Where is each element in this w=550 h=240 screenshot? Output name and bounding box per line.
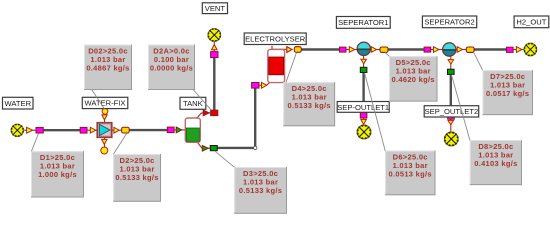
svg-text:H2_OUT: H2_OUT [516, 18, 546, 27]
mixer WATER-FIX [97, 123, 112, 138]
leader D02 [92, 90, 104, 109]
stub SEPERATOR1 bottom [363, 55, 365, 68]
stub SEP-OUTLET1 sink [363, 118, 365, 126]
annotation D2A [148, 45, 195, 91]
annotation D1 [31, 151, 84, 197]
connector SEPERATOR1 in magenta [340, 47, 347, 52]
sink SEP-OUTLET1 flag [357, 125, 372, 140]
stub WATER-FIX bottom [104, 137, 106, 147]
leader D3 [215, 151, 235, 167]
separator SEPERATOR1 [357, 42, 370, 55]
leader D5 [385, 52, 389, 56]
arrow SEP_OUTLET2 (down) [448, 120, 454, 124]
arrow SEPERATOR2 in [434, 47, 439, 53]
connector SEPERATOR2 out yellow [466, 47, 474, 52]
svg-text:0.5133 kg/s: 0.5133 kg/s [115, 173, 158, 182]
connector ELECTROLYSER in magenta [252, 83, 259, 89]
connector WATER-FIX out yellow [122, 127, 130, 133]
svg-text:SEPERATOR2: SEPERATOR2 [424, 18, 474, 27]
stub WATER [23, 129, 36, 131]
stub TANK vapour outlet [196, 113, 211, 119]
annotation D3 [234, 167, 287, 214]
arrow WATER-FIX bottom (down) [102, 139, 107, 144]
arrow WATER out [27, 127, 33, 133]
mixer top port circle [102, 108, 108, 114]
svg-text:TANK: TANK [183, 99, 203, 108]
mixer bottom port circle [101, 147, 108, 154]
arrow ELECTROLYSER out [287, 47, 292, 53]
arrow VENT (up) [212, 45, 218, 50]
stub SEPERATOR2 right [456, 49, 467, 51]
wire elbow ring [254, 146, 257, 149]
sink VENT flag [208, 28, 222, 42]
svg-text:SEPERATOR1: SEPERATOR1 [338, 18, 388, 27]
leader D1 [32, 134, 39, 152]
svg-text:WATER-FIX: WATER-FIX [85, 99, 126, 108]
connector TANK in magenta [167, 127, 174, 133]
stub TANK liquid outlet [197, 142, 211, 148]
label WATER [3, 97, 34, 109]
sink SEP_OUTLET2 flag [444, 132, 459, 147]
svg-text:0.0000 kg/s: 0.0000 kg/s [150, 63, 193, 72]
label SEP-OUTLET1 [337, 102, 389, 113]
arrow ELECTROLYSER in [262, 82, 267, 88]
wire SEPERATOR2 to SEP_OUTLET2 [450, 75, 452, 115]
svg-text:0.4620 kg/s: 0.4620 kg/s [392, 75, 435, 84]
stub SEP_OUTLET2 sink [450, 119, 452, 133]
connector WATER out magenta [36, 127, 43, 133]
svg-text:0.5133 kg/s: 0.5133 kg/s [288, 101, 331, 110]
sink H2_OUT flag [524, 43, 537, 56]
arrow SEPERATOR1 down [361, 59, 367, 64]
connector SEPERATOR2 green square [448, 69, 455, 74]
wire SEPERATOR1 to SEP-OUTLET1 [362, 73, 364, 113]
leader D8 [452, 75, 470, 140]
stub ELECTROLYSER outlet [271, 46, 273, 51]
stub ELECTROLYSER outlet h [272, 48, 288, 50]
connector SEPERATOR1 green square [360, 67, 367, 72]
arrow SEPERATOR2 out [457, 47, 462, 53]
svg-text:0.5133 kg/s: 0.5133 kg/s [239, 186, 282, 195]
annotation D2 [113, 154, 161, 202]
label H2_OUT [514, 16, 549, 28]
wire TANK to VENT [213, 58, 215, 110]
annotation D7 [483, 70, 534, 115]
connector TANK liquid green square [210, 146, 217, 151]
stub SEPERATOR1 right [370, 49, 380, 51]
wire SEPERATOR2 to H2_OUT [475, 48, 507, 50]
arrow SEP-OUTLET1 (down) [361, 119, 367, 124]
wire TANK to ELECTROLYSER [217, 88, 255, 148]
separator SEPERATOR2 [443, 43, 456, 56]
arrow WATER-FIX in [90, 127, 95, 133]
svg-text:0.4103 kg/s: 0.4103 kg/s [474, 159, 517, 168]
svg-text:SEP-OUTLET1: SEP-OUTLET1 [337, 103, 389, 112]
svg-text:0.4867 kg/s: 0.4867 kg/s [86, 63, 129, 72]
stub WATER-FIX right [112, 129, 123, 131]
arrow SEPERATOR2 down [448, 60, 454, 65]
arrow SEPERATOR1 out [371, 47, 376, 53]
label ELECTROLYSER [244, 33, 306, 45]
label SEPERATOR2 [422, 16, 476, 28]
annotation D4 [283, 82, 335, 126]
leader D6 [365, 73, 386, 151]
svg-text:ELECTROLYSER: ELECTROLYSER [245, 35, 306, 44]
vessel ELECTROLYSER [268, 49, 285, 82]
wire SEPERATOR1 to SEPERATOR2 [389, 48, 425, 50]
arrow WATER-FIX top (down) [102, 115, 107, 120]
annotation D6 [385, 151, 436, 196]
arrow TANK liquid out (green) [202, 146, 208, 152]
connector VENT magenta [211, 52, 218, 58]
leader D2A [194, 90, 212, 110]
stub SEPERATOR1 left [346, 49, 359, 51]
stub WATER-FIX left [87, 129, 98, 131]
arrow WATER-FIX out [114, 127, 119, 133]
svg-text:0.0513 kg/s: 0.0513 kg/s [389, 169, 432, 178]
svg-text:VENT: VENT [205, 4, 226, 13]
leader D4 [286, 53, 297, 83]
arrow SEPERATOR1 in [349, 47, 354, 53]
stub VENT [213, 42, 215, 52]
connector SEPERATOR1 out yellow [380, 47, 388, 52]
stub H2_OUT [513, 49, 525, 51]
svg-text:1.000 kg/s: 1.000 kg/s [38, 170, 77, 179]
label SEPERATOR1 [336, 17, 390, 29]
annotation D5 [389, 56, 438, 101]
wire WATER to WATER-FIX [43, 129, 81, 131]
connector H2_OUT magenta [507, 47, 514, 52]
arrow H2_OUT [516, 47, 521, 53]
label TANK [180, 97, 206, 109]
annotation D8 [470, 140, 522, 185]
svg-text:WATER: WATER [5, 99, 32, 108]
source WATER flag [11, 124, 24, 137]
stub TANK inlet [174, 129, 186, 131]
leader D7 [474, 53, 483, 71]
stub SEPERATOR2 left [431, 49, 444, 51]
vessel TANK [185, 118, 200, 142]
connector SEPERATOR2 in magenta [424, 47, 431, 52]
leader D2 [114, 133, 127, 154]
arrow TANK in (green) [176, 127, 182, 133]
annotation D02 [84, 45, 132, 91]
svg-text:SEP_OUTLET2: SEP_OUTLET2 [425, 107, 479, 116]
svg-text:0.0517 kg/s: 0.0517 kg/s [486, 89, 529, 98]
connector SEP-OUTLET1 magenta [360, 113, 367, 118]
connector WATER-FIX in magenta [80, 127, 87, 133]
label VENT [202, 3, 227, 14]
stub SEPERATOR2 bottom [450, 56, 452, 69]
wire WATER-FIX to TANK [129, 129, 168, 131]
stub ELECTROLYSER inlet [259, 82, 270, 85]
label WATER-FIX [82, 97, 128, 108]
wire ELECTROLYSER to SEPERATOR1 [301, 48, 340, 50]
stub WATER-FIX top [104, 114, 106, 123]
connector TANK vapour red square [211, 110, 218, 116]
label SEP_OUTLET2 [424, 106, 479, 117]
connector SEP_OUTLET2 magenta [448, 115, 455, 120]
connector ELECTROLYSER out yellow [294, 47, 301, 53]
arrow TANK vapour out (red) [203, 110, 209, 116]
